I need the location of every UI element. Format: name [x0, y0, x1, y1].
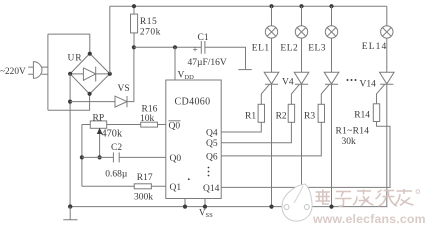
diode VS [115, 96, 127, 107]
node VDD tap [173, 45, 177, 49]
node ground rail left [68, 204, 72, 208]
watermark text chinese [316, 189, 414, 206]
svg-text:C1: C1 [198, 33, 209, 43]
svg-text:~220V: ~220V [0, 67, 26, 77]
node rail EL2 bottom [299, 205, 303, 209]
svg-text:R1: R1 [245, 111, 256, 121]
node VSS rail 2 [203, 205, 207, 209]
svg-text:R17: R17 [137, 173, 153, 183]
svg-text:Q14: Q14 [203, 184, 220, 194]
node bridge right vertex [108, 72, 112, 76]
potentiometer RP [82, 121, 141, 157]
lamp EL1 [265, 6, 277, 72]
ground G1 [63, 207, 77, 220]
svg-text:RP: RP [93, 113, 105, 123]
IC U1 CD4060 [166, 80, 221, 199]
wire VSS stub 1 [184, 199, 186, 207]
svg-text:10k: 10k [140, 114, 155, 124]
node VS tap [68, 100, 72, 104]
wire VS cathode up to R15 node [127, 47, 134, 101]
wire VS anode row [70, 101, 115, 103]
thyristor V14 (under EL14) [377, 72, 395, 206]
svg-text:C2: C2 [111, 143, 122, 153]
node C2 left [80, 155, 84, 159]
pins ellipsis [208, 167, 210, 169]
svg-text:+: + [193, 45, 198, 55]
wire plug vertical bus [47, 34, 49, 110]
watermark logo blob [282, 184, 312, 221]
svg-text:30k: 30k [342, 137, 357, 147]
lamp EL14 [381, 6, 393, 72]
bridge rectifier UR [70, 54, 110, 95]
label ellipsis dots [347, 79, 349, 81]
svg-text:Q0: Q0 [170, 154, 182, 164]
watermark registered mark [416, 190, 420, 194]
resistor R17 [82, 184, 166, 189]
wire VDD drop [174, 47, 176, 80]
svg-text:Q0: Q0 [169, 122, 181, 132]
speck inside IC [188, 178, 190, 180]
wire C1 row [134, 47, 246, 69]
wire bridge right vertex riser to top rail [109, 6, 111, 74]
svg-text:300k: 300k [134, 193, 153, 203]
wire RP left drop [81, 125, 83, 187]
resistor R2 [221, 104, 294, 142]
node VSS rail 1 [183, 205, 187, 209]
svg-text:270k: 270k [140, 27, 161, 37]
wire VSS stub 2 [204, 199, 206, 207]
thyristor V4 (under EL2) [291, 72, 308, 206]
wire bottom rail [69, 206, 388, 208]
node rail EL1 [269, 4, 273, 8]
svg-text:Q6: Q6 [206, 152, 218, 162]
capacitor C2 [113, 152, 119, 162]
lamp EL2 [295, 6, 307, 72]
svg-text:Q1: Q1 [170, 183, 182, 193]
svg-text:Q5: Q5 [206, 139, 218, 149]
svg-text:47µF/16V: 47µF/16V [188, 58, 227, 68]
plug P (~220V mains plug) [28, 61, 48, 78]
resistor R15 [131, 6, 138, 47]
svg-text:EL14: EL14 [362, 42, 388, 52]
ground G2 (after C1) [238, 69, 252, 71]
thyristor V1 (under EL1) [261, 72, 279, 206]
svg-text:R2: R2 [276, 111, 287, 121]
svg-text:EL2: EL2 [280, 44, 298, 54]
svg-text:EL3: EL3 [308, 44, 326, 54]
svg-text:CD4060: CD4060 [175, 97, 211, 108]
node RP wiper [98, 155, 102, 159]
svg-text:VS: VS [118, 84, 130, 94]
svg-text:470k: 470k [102, 129, 123, 140]
svg-text:R15: R15 [140, 17, 157, 27]
svg-text:UR: UR [68, 54, 83, 64]
resistor R16 [141, 122, 166, 127]
svg-text:R14: R14 [354, 111, 370, 121]
thyristor V3 (under EL3) [321, 72, 339, 206]
resistor R1 [221, 104, 264, 132]
svg-text:R1~R14: R1~R14 [336, 127, 370, 137]
wire C2 row [82, 156, 166, 158]
resistor R14 [221, 104, 390, 188]
svg-text:Q4: Q4 [206, 128, 218, 138]
node R15 top [132, 4, 136, 8]
wire top rail [110, 5, 387, 7]
svg-text:www.elecfans.com: www.elecfans.com [312, 212, 426, 226]
svg-text:V14: V14 [360, 80, 377, 90]
node rail EL2 [299, 4, 303, 8]
resistor R3 [221, 104, 324, 156]
node rail EL3 bottom [329, 205, 333, 209]
svg-text:EL1: EL1 [252, 44, 270, 54]
node rail EL3 [329, 4, 333, 8]
lamp EL3 [325, 6, 337, 72]
node bridge bottom vertex [88, 92, 92, 96]
node rail EL1 bottom [269, 205, 273, 209]
wire top loop to bridge top [48, 34, 90, 54]
wire bottom loop to bridge bottom [48, 94, 90, 110]
svg-text:V4: V4 [282, 78, 294, 88]
capacitor C1 [201, 41, 205, 54]
node bridge top vertex [88, 52, 92, 56]
node bridge left vertex [68, 72, 72, 76]
wire bridge left vertex down to ground rail [69, 74, 71, 207]
node R15 bottom [132, 45, 136, 49]
svg-text:0.68µ: 0.68µ [105, 169, 128, 179]
svg-text:R3: R3 [304, 111, 315, 121]
